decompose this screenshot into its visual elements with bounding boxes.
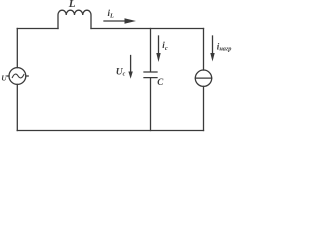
arrow iL shaft	[104, 20, 127, 22]
arrow iL head	[125, 18, 137, 23]
wire top-right horizontal	[91, 28, 204, 30]
AC source left stub	[7, 75, 9, 77]
svg-text:iL: iL	[108, 8, 115, 20]
capacitor C plates	[144, 72, 157, 78]
svg-text:Uc: Uc	[116, 68, 126, 78]
wire right vertical upper	[203, 29, 205, 71]
AC source sine wave	[12, 74, 24, 78]
svg-text:C: C	[157, 77, 164, 87]
arrow i-nagr shaft	[212, 36, 214, 54]
svg-text:iнагр: iнагр	[217, 41, 232, 52]
wire middle branch lower	[150, 78, 152, 131]
wire left vertical lower	[16, 84, 18, 130]
wire right vertical lower	[203, 86, 205, 130]
arrow i-nagr head	[210, 53, 214, 62]
arrow uC head	[128, 72, 132, 79]
wire left vertical upper	[16, 29, 18, 68]
wire top-left horizontal	[17, 28, 58, 30]
wire bottom horizontal	[17, 130, 203, 132]
svg-text:L: L	[68, 0, 76, 10]
current source circle	[195, 70, 211, 86]
AC source right stub	[26, 75, 28, 77]
arrow ic shaft	[158, 36, 160, 54]
AC source U circle	[9, 68, 26, 85]
wire middle branch upper	[150, 29, 152, 72]
svg-text:U: U	[1, 74, 7, 83]
current source bar	[195, 77, 211, 79]
inductor L	[58, 10, 91, 28]
svg-text:ic: ic	[162, 40, 168, 52]
arrow uC shaft	[130, 56, 132, 73]
arrow ic head	[156, 53, 160, 62]
